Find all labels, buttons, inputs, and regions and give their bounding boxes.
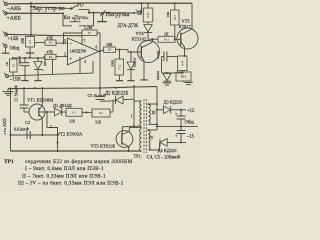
label winding IV	[149, 135, 153, 140]
pin 6	[96, 46, 98, 50]
node VT2 tick dot	[56, 141, 58, 143]
node VT3 emitter rail	[128, 150, 130, 152]
wire rail2 left segment	[6, 12, 64, 14]
wire load to rail1	[140, 3, 143, 13]
node x30 rail3	[30, 34, 32, 36]
node VT5 base	[174, 38, 176, 40]
wire RO contact	[79, 10, 90, 13]
node RO contact	[88, 12, 90, 14]
node VT4 collector	[151, 38, 153, 40]
wire R11 right	[175, 38, 181, 40]
wire row58	[13, 57, 44, 59]
wire VT3 base	[122, 126, 134, 133]
node left vert top	[9, 88, 11, 90]
ground under VT4 emitter	[140, 72, 147, 80]
relay contact RO lever	[72, 6, 77, 9]
pushbutton Kn branch left	[63, 13, 72, 25]
wire R5 to pin3	[56, 42, 68, 44]
wire IV top	[149, 129, 158, 131]
diode D5	[127, 62, 135, 70]
transformer winding IV	[149, 130, 151, 150]
wire rail2 right segment	[89, 12, 135, 14]
transformer core	[144, 99, 146, 153]
wire R13 stub	[174, 3, 176, 10]
node pin3 feedback	[62, 42, 64, 44]
value 10K R9	[106, 43, 113, 47]
relay coil RO box	[176, 72, 191, 81]
resistor R3	[10, 59, 18, 72]
wire R7 left	[64, 33, 83, 43]
node rail2 gap left	[62, 12, 64, 14]
node output	[99, 50, 101, 52]
wire zar branch line	[31, 7, 72, 9]
label RO	[77, 2, 84, 8]
transistor VT4	[138, 39, 160, 71]
value R10	[139, 9, 143, 15]
label Zar ustr-vo	[33, 5, 65, 12]
label D3	[164, 99, 184, 104]
pin 3	[64, 39, 66, 43]
transformer winding II	[140, 129, 142, 152]
capacitor C2b plates	[27, 131, 30, 139]
node load rail1	[140, 2, 142, 4]
capacitor C5	[175, 126, 186, 142]
pin 7 wire	[81, 36, 83, 45]
terminal Obsh	[2, 43, 7, 48]
wire output to R9	[100, 50, 104, 52]
value 110 R2	[95, 120, 101, 125]
ground under R12	[116, 80, 123, 81]
wire R6 bottom drop	[52, 59, 54, 74]
caption line 2	[25, 166, 104, 172]
label VT4 type	[132, 36, 147, 41]
capacitor C4	[175, 110, 186, 127]
transistor VT5	[177, 3, 198, 56]
wire R10 to D7	[147, 22, 149, 24]
node R12 top	[118, 49, 120, 51]
diode VD D7	[144, 25, 152, 33]
label VT2	[57, 132, 83, 137]
ground under VD1	[34, 79, 41, 81]
label C mark	[50, 125, 53, 129]
label +AKB rotated	[2, 118, 7, 135]
terminal -AKB	[3, 1, 8, 6]
node row73 a	[166, 72, 168, 74]
node VT1 collector row	[41, 134, 43, 136]
capacitor C6 plates	[164, 52, 167, 62]
op-amp plus sign	[70, 57, 73, 62]
terminal -15V	[4, 73, 9, 78]
capacitor C3	[96, 88, 105, 100]
node base D1	[46, 111, 48, 113]
value 1K R11	[164, 33, 169, 37]
node mid x35	[34, 87, 36, 89]
ground under Obsh	[2, 48, 10, 54]
value 47K R5	[47, 36, 54, 40]
label +AKB	[7, 16, 21, 22]
pushbutton Kn branch right	[79, 13, 94, 26]
label TP1 small	[134, 154, 142, 159]
op-amp minus sign	[69, 42, 73, 47]
node R10 rail1	[147, 2, 149, 4]
wire mid rail	[8, 87, 157, 89]
resistor R10	[143, 8, 153, 22]
wire R13 to base	[174, 25, 176, 39]
label VT1	[27, 98, 53, 103]
ground under R4	[26, 47, 34, 59]
wire D2 row left	[100, 100, 116, 103]
label +15V	[8, 37, 20, 42]
node x30 rail1	[30, 2, 32, 4]
node R13 rail1	[174, 2, 176, 4]
label Obsh right	[185, 121, 195, 126]
wire collector row	[148, 38, 158, 40]
wire D5 drop	[130, 52, 132, 62]
wire row135	[11, 134, 58, 136]
resistor R14	[178, 56, 188, 71]
wire R3 bottom	[12, 72, 14, 76]
transformer winding III	[149, 104, 151, 125]
pushbutton Kn bar	[70, 19, 81, 22]
slash at load node	[100, 10, 106, 16]
value R13	[166, 11, 170, 17]
wire winding I bottom jog	[134, 125, 142, 127]
node mid out	[99, 87, 101, 89]
wire x134 vertical	[133, 86, 135, 126]
ground under C10	[21, 79, 28, 81]
node IV top left	[147, 129, 149, 131]
label C3	[88, 93, 106, 98]
wire row 73	[162, 72, 184, 74]
label VT5	[182, 18, 191, 23]
resistor R4	[26, 37, 35, 48]
node mid x116	[115, 87, 117, 89]
node VT5 emitter row	[183, 55, 185, 57]
pin 4	[84, 60, 86, 64]
label D4	[158, 148, 178, 153]
capacitor C10	[21, 58, 30, 79]
label D6	[156, 71, 160, 80]
label D5	[132, 57, 136, 67]
node Obsh row	[156, 125, 158, 127]
label VT5 type	[179, 24, 192, 29]
label D7A-D7Zh	[118, 24, 139, 29]
wire IV bottom	[149, 142, 160, 150]
ground left end	[3, 89, 14, 96]
label Nagruzka	[106, 12, 130, 18]
value 1,2M R7	[84, 26, 93, 31]
label -AKB	[6, 6, 21, 12]
wire cap row	[162, 56, 178, 58]
value C6	[156, 51, 160, 59]
wire output down	[99, 51, 101, 88]
op-amp U1 body	[68, 38, 100, 65]
wire R9 right	[116, 49, 129, 51]
node row58 c	[12, 57, 14, 59]
node load junction	[101, 13, 104, 16]
wire Obsh row	[157, 125, 198, 127]
wire left vertical	[10, 89, 12, 151]
node III bottom	[156, 123, 158, 125]
wire R12 bottom	[119, 75, 121, 80]
node R1 R2	[85, 111, 87, 113]
transistor VT1	[29, 88, 45, 135]
label VT4	[136, 31, 145, 36]
node mid C1	[23, 87, 25, 89]
node rail2 gap right	[92, 12, 94, 14]
pin 4 wire	[79, 57, 81, 73]
wire winding I top jog	[134, 100, 142, 102]
wire R6 to pin2	[56, 56, 68, 58]
caption TP1	[4, 159, 14, 165]
resistor R12	[115, 59, 124, 75]
wire R12 drop	[119, 50, 121, 59]
value 47K R6	[47, 51, 54, 55]
wire R10 stub	[147, 3, 149, 8]
value 10K R4	[21, 37, 25, 44]
node D3 row	[156, 109, 158, 111]
label VT3	[91, 144, 116, 149]
wire bottom rail	[11, 150, 142, 152]
node row58 b	[37, 57, 39, 59]
value 1K R3	[5, 61, 9, 66]
node III top	[156, 103, 158, 105]
node zar right	[70, 7, 73, 10]
wire rail3 +15V	[6, 34, 82, 35]
wire vert157	[156, 87, 158, 130]
wire base down	[47, 112, 58, 151]
node diode D5 top	[130, 51, 132, 53]
node x30 rail2	[30, 12, 32, 14]
caption line 3	[22, 173, 106, 179]
label winding I	[131, 114, 133, 119]
terminal +AKB	[2, 10, 7, 15]
ground under load node	[97, 14, 107, 22]
node mid VT1e	[41, 87, 43, 89]
label VD1 rotated	[43, 58, 47, 66]
wire III top	[149, 103, 158, 105]
wire rail1	[8, 2, 193, 5]
caption line 4	[18, 181, 124, 187]
node zar left	[30, 6, 32, 8]
node C5 top	[180, 125, 182, 127]
wire R1 to R2	[82, 111, 92, 113]
resistor R9	[104, 47, 116, 52]
resistor R5	[45, 40, 56, 45]
wire D3 right	[171, 109, 186, 111]
node C2 bottom	[56, 150, 58, 152]
op-amp type 140UD708	[70, 50, 86, 54]
label C2 value	[14, 127, 30, 133]
pin 7	[84, 39, 86, 43]
wire D7 to node	[147, 33, 149, 39]
capacitor C1	[20, 88, 29, 112]
wire R2 right	[110, 100, 113, 112]
resistor R6	[45, 54, 56, 59]
transformer winding I	[140, 101, 142, 127]
label D2	[105, 91, 128, 96]
label C4 C5 value	[147, 155, 181, 160]
wire minus15 row	[9, 73, 93, 76]
wire R4 to R5	[35, 42, 46, 44]
node row135 left	[9, 134, 11, 136]
wire D4 right	[167, 141, 186, 143]
wire D1 to R1	[62, 111, 66, 113]
wire VT1 base	[39, 111, 54, 113]
resistor R13	[171, 10, 179, 25]
zener VD1	[34, 58, 44, 79]
diode D3	[164, 106, 171, 114]
terminal load	[136, 10, 141, 15]
value R12	[111, 59, 115, 67]
wire to load terminal	[134, 12, 137, 14]
node C2 row join	[56, 134, 58, 136]
node mid x135	[133, 85, 135, 87]
resistor R1	[66, 108, 82, 116]
pin 2	[64, 53, 66, 57]
pin 4 wire b	[92, 61, 94, 73]
ground D6 bars	[163, 81, 171, 85]
label -15	[186, 135, 195, 140]
transistor VT3	[116, 128, 141, 151]
ground under RO	[184, 81, 193, 85]
diode D4	[160, 139, 167, 147]
wire R14 bottom	[181, 71, 183, 73]
wire D2 row right	[123, 98, 134, 100]
resistor R2	[92, 109, 110, 117]
node III top left	[147, 103, 149, 105]
wire III bottom	[149, 123, 158, 125]
wire to VT4 base	[128, 50, 141, 52]
caption line 1	[25, 158, 133, 165]
node C4 top	[180, 109, 182, 111]
wire C6 left drop	[161, 57, 163, 73]
value 110 R1	[69, 119, 75, 124]
wire R6 left stub	[44, 57, 45, 58]
terminal +15V	[3, 31, 8, 36]
label winding III	[152, 110, 157, 115]
resistor R7	[82, 30, 97, 36]
label C10 rotated	[18, 56, 22, 66]
diode D6	[163, 74, 171, 82]
label Kn Pusk	[64, 15, 89, 21]
label D1	[53, 103, 72, 108]
wire D5 bottom	[130, 70, 132, 79]
node row73 b	[181, 72, 183, 74]
node row58 a	[24, 57, 26, 59]
label C1 rotated	[15, 85, 19, 101]
wire R7 right	[97, 33, 100, 51]
label C2	[25, 120, 30, 125]
node C5 bottom	[180, 141, 182, 143]
ground under D5	[127, 80, 134, 81]
wire D3 left	[157, 109, 164, 111]
label Obsh	[10, 47, 20, 52]
node base junction	[133, 125, 135, 127]
resistor R11	[158, 36, 175, 42]
wire rail drop x30	[30, 3, 32, 36]
diode D1 zener	[55, 107, 62, 116]
label -15V	[9, 78, 21, 83]
node load right	[133, 12, 135, 14]
diode D2	[116, 96, 124, 104]
label +15	[187, 109, 195, 114]
